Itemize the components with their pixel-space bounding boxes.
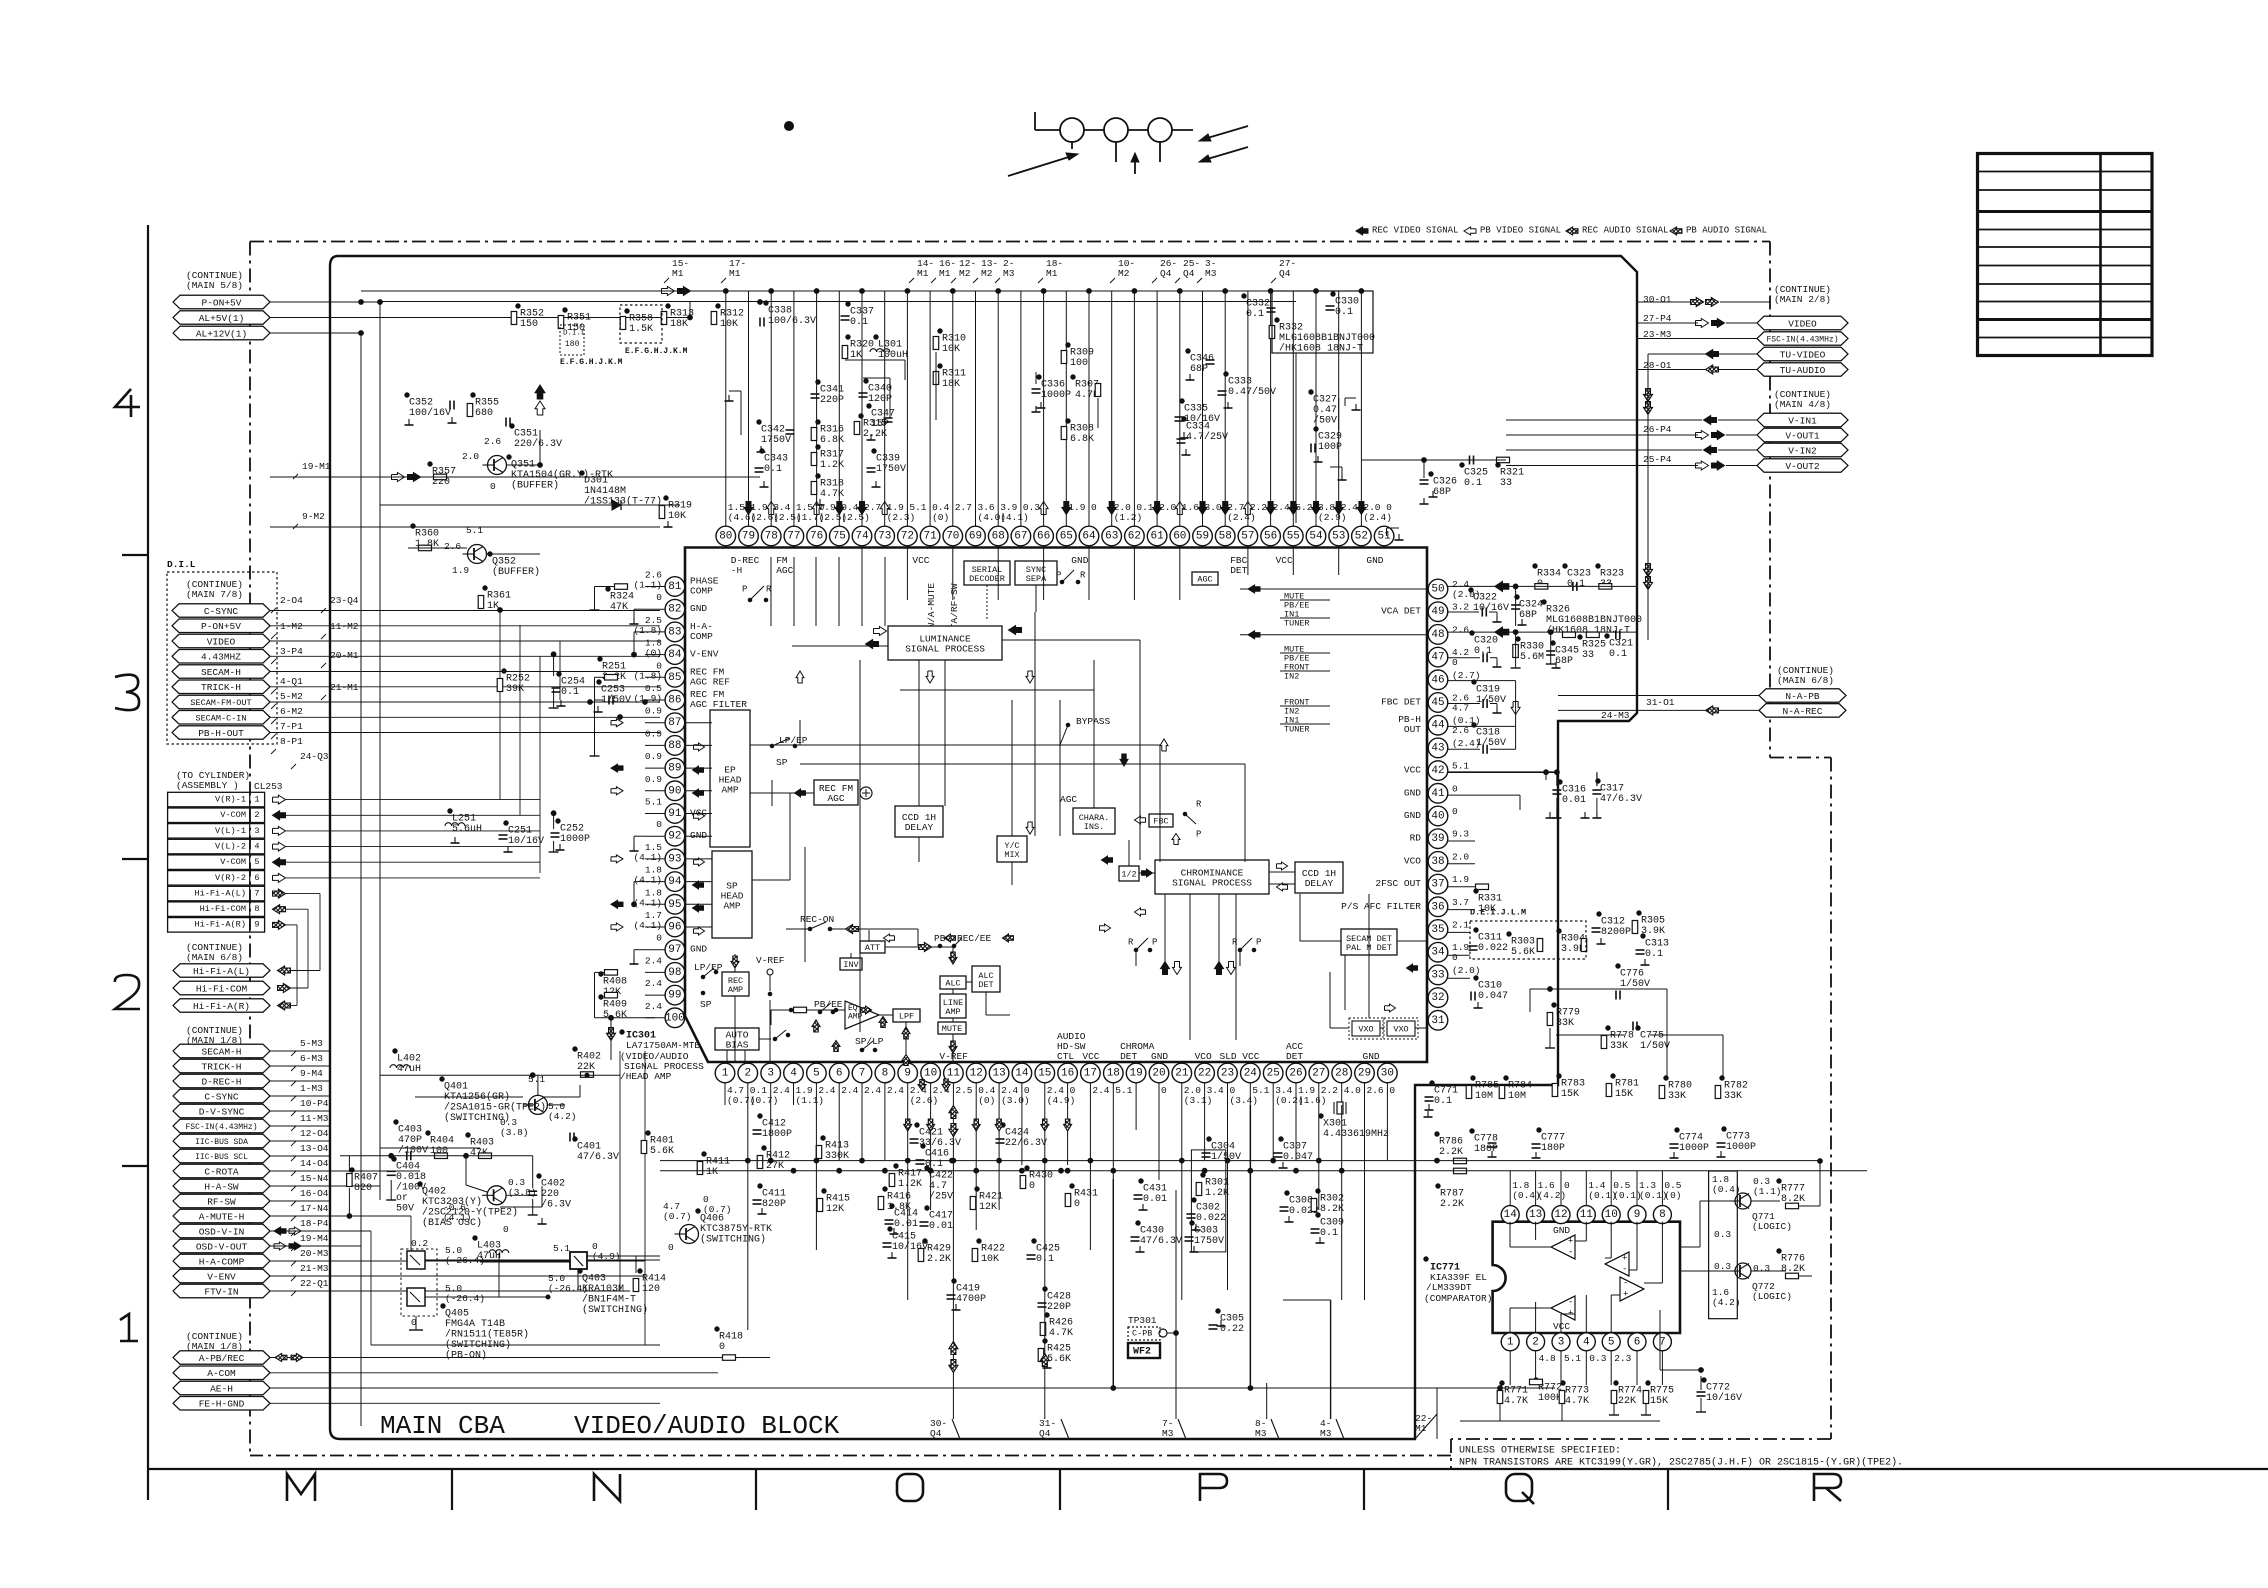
svg-text:67: 67	[1014, 531, 1027, 543]
svg-text:5.1: 5.1	[1452, 761, 1469, 772]
capacitor C317	[1596, 779, 1600, 783]
arrow 30-O1	[1691, 298, 1704, 307]
svg-text:36: 36	[1431, 901, 1444, 913]
IC301 pin 5	[807, 1063, 827, 1083]
svg-text:V(L)-2: V(L)-2	[215, 841, 246, 851]
svg-text:R3035.6K: R3035.6K	[1511, 936, 1535, 958]
wire gnd stub pin82	[634, 608, 645, 610]
svg-text:C777180P: C777180P	[1541, 1132, 1565, 1154]
svg-text:-: -	[1622, 1265, 1627, 1275]
wire pin49	[1448, 611, 1479, 613]
wire pin46	[1448, 680, 1516, 682]
svg-text:V-ENV: V-ENV	[690, 649, 719, 660]
wire P-ON+5V	[270, 625, 660, 627]
wire bus y1171 right	[1415, 1170, 1867, 1172]
wire pin 14 bottom	[1021, 1083, 1023, 1105]
resistor R330	[1516, 637, 1520, 641]
svg-text:11: 11	[947, 1068, 961, 1080]
resistor R305	[1637, 911, 1641, 915]
resistor R301	[1201, 1173, 1205, 1177]
wire V-ENV	[270, 1275, 645, 1277]
svg-text:87: 87	[668, 717, 681, 729]
svg-text:0: 0	[503, 1224, 509, 1235]
svg-text:2: 2	[744, 1068, 751, 1080]
svg-text:5.1: 5.1	[645, 797, 662, 808]
svg-text:R7768.2K: R7768.2K	[1781, 1253, 1805, 1275]
svg-text:35: 35	[1431, 924, 1444, 936]
resistor R317	[816, 445, 820, 449]
svg-text:V-COM: V-COM	[220, 810, 246, 820]
svg-text:2FSC OUT: 2FSC OUT	[1375, 878, 1421, 889]
connector FTV-IN	[173, 1284, 270, 1298]
svg-text:SLD: SLD	[1220, 1051, 1237, 1062]
svg-text:(CONTINUE)(MAIN 6/8): (CONTINUE)(MAIN 6/8)	[186, 942, 243, 963]
wire pin47	[1448, 657, 1480, 659]
svg-text:VCC: VCC	[912, 555, 929, 566]
connector VIDEO	[1757, 316, 1848, 330]
dash-dot boundary top edge	[250, 241, 1770, 243]
svg-text:82: 82	[668, 604, 681, 616]
arrow cylinder 9	[273, 920, 286, 929]
svg-text:0: 0	[1161, 1085, 1167, 1096]
resistor R415	[822, 1189, 826, 1193]
dash-dot boundary bottom edge left	[250, 1455, 1451, 1457]
IC301 pin 16	[1058, 1063, 1078, 1083]
IC771 pin 9	[1628, 1206, 1646, 1224]
wire vxo to pin31	[1415, 1027, 1427, 1029]
arrow VIDEO	[1696, 319, 1709, 328]
wire V-IN2	[1506, 449, 1702, 451]
block SECAM DET PAL M DET	[1341, 929, 1397, 955]
svg-text:A-MUTE-H: A-MUTE-H	[199, 1211, 245, 1222]
svg-text:C341220P: C341220P	[820, 384, 844, 406]
svg-text:R4015.6K: R4015.6K	[650, 1135, 674, 1157]
wire pin 98 left	[645, 971, 665, 973]
svg-text:0.9: 0.9	[645, 728, 662, 739]
svg-text:C428220P: C428220P	[1047, 1291, 1071, 1313]
wire rec fm agc	[750, 792, 814, 794]
svg-text:1: 1	[254, 795, 259, 805]
wire ep head amp out	[750, 744, 800, 746]
resistor R334	[1533, 564, 1537, 568]
resistor R323	[1596, 564, 1600, 568]
wire pin 57 top	[1247, 292, 1249, 527]
svg-text:1-M3: 1-M3	[300, 1083, 323, 1094]
IC301 pin 71	[920, 526, 940, 546]
grid column label P	[1200, 1474, 1227, 1501]
IC301 pin 44	[1428, 715, 1448, 735]
svg-text:R4264.7K: R4264.7K	[1049, 1317, 1073, 1339]
svg-text:4.43MHZ: 4.43MHZ	[201, 652, 241, 663]
wire pin 90 left	[645, 790, 665, 792]
arrow q351 up	[535, 385, 545, 399]
svg-text:3.2: 3.2	[1452, 602, 1469, 613]
tape path arrow up	[1134, 158, 1136, 174]
block ATT	[860, 941, 885, 953]
wire pin 99 left	[645, 994, 665, 996]
svg-text:R413330K: R413330K	[825, 1140, 849, 1162]
connector P-ON+5V	[172, 619, 270, 633]
block VXO right	[1387, 1021, 1415, 1036]
IC301 pin 48	[1428, 625, 1448, 645]
svg-text:30: 30	[1381, 1068, 1394, 1080]
connector OSD-V-IN	[173, 1224, 270, 1238]
connector V-IN1	[1757, 413, 1848, 427]
svg-text:R772100K: R772100K	[1538, 1382, 1562, 1404]
wire V-OUT2	[1506, 465, 1698, 467]
IC301 pin 75	[830, 526, 850, 546]
block Y/C MIX	[997, 836, 1027, 862]
IC301 pin 51	[1374, 526, 1394, 546]
grid row label 3	[115, 675, 139, 710]
svg-text:R3152.2K: R3152.2K	[863, 418, 887, 440]
IC301 pin 37	[1428, 874, 1448, 894]
wire IC inner pin50 row	[1240, 588, 1427, 590]
svg-text:1.9: 1.9	[1452, 874, 1469, 885]
resistor R416	[883, 1187, 887, 1191]
wire pin 52 top	[1360, 292, 1362, 527]
svg-text:D.I.L: D.I.L	[167, 559, 196, 570]
IC301 pin 45	[1428, 693, 1448, 713]
svg-text:SERIALDECODER: SERIALDECODER	[969, 565, 1005, 584]
connector AL+5V(1)	[173, 311, 270, 324]
resistor R782	[1720, 1076, 1724, 1080]
svg-text:R: R	[1080, 571, 1086, 581]
arrow cylinder 4	[273, 842, 286, 851]
capacitor C333	[1224, 372, 1228, 376]
svg-text:10: 10	[1605, 1209, 1618, 1221]
wire C342 gnd bracket	[740, 391, 742, 435]
svg-text:28: 28	[1335, 1068, 1348, 1080]
svg-text:AGC: AGC	[1060, 794, 1077, 805]
registration dot	[785, 122, 794, 131]
IC301 pin 52	[1352, 526, 1372, 546]
IC301 pin 2	[738, 1063, 758, 1083]
connector FSC-IN	[1757, 332, 1848, 345]
IC301 pin 50	[1428, 579, 1448, 599]
svg-text:77: 77	[787, 531, 800, 543]
svg-text:C3160.01: C3160.01	[1562, 784, 1586, 806]
svg-text:0.9: 0.9	[645, 774, 662, 785]
svg-text:N-A-PB: N-A-PB	[1785, 691, 1820, 702]
resistor R779	[1552, 1003, 1556, 1007]
block SP HEAD AMP	[712, 851, 752, 938]
resistor R421	[975, 1187, 979, 1191]
svg-text:+: +	[1568, 1237, 1573, 1247]
svg-text:PB VIDEO SIGNAL: PB VIDEO SIGNAL	[1480, 226, 1561, 236]
IC301 pin 32	[1428, 988, 1448, 1008]
svg-text:48: 48	[1431, 629, 1444, 641]
svg-text:53: 53	[1332, 531, 1345, 543]
svg-text:20-M1: 20-M1	[330, 650, 359, 661]
arrow OSD-V-OUT	[274, 1242, 286, 1250]
svg-text:BYPASS: BYPASS	[1076, 716, 1111, 727]
svg-text:H-A-COMP: H-A-COMP	[199, 1256, 245, 1267]
wire vert long 860	[859, 660, 861, 1032]
connector V-OUT2	[1757, 459, 1848, 472]
svg-text:2.3: 2.3	[1614, 1353, 1631, 1364]
svg-text:89: 89	[668, 763, 681, 775]
wire R324 gnd stub	[595, 586, 615, 588]
connector TRICK-H	[172, 680, 270, 694]
svg-text:C4310.01: C4310.01	[1143, 1183, 1167, 1205]
resistor R409	[599, 995, 603, 999]
connector H-A-SW	[173, 1179, 270, 1193]
wire q401 links	[547, 1104, 565, 1106]
svg-text:6-M3: 6-M3	[300, 1053, 323, 1064]
wire pin 7 bottom	[861, 1083, 863, 1105]
dash-dot boundary right edge lower	[1830, 758, 1832, 1440]
IC301 pin 87	[665, 713, 685, 733]
IC301 pin 72	[898, 526, 918, 546]
IC771 pin 3	[1552, 1333, 1570, 1351]
wire bus x540	[539, 656, 541, 873]
svg-text:0.4(0): 0.4(0)	[978, 1085, 995, 1106]
svg-text:27: 27	[1312, 1068, 1325, 1080]
capacitor C323	[1563, 564, 1567, 568]
resistor R783	[1557, 1074, 1561, 1078]
capacitor C337	[846, 302, 850, 306]
svg-text:37: 37	[1431, 879, 1444, 891]
svg-text:Hi-Fi-A(L): Hi-Fi-A(L)	[194, 888, 246, 898]
svg-text:REC VIDEO SIGNAL: REC VIDEO SIGNAL	[1372, 226, 1458, 236]
MAIN CBA board outline	[330, 256, 1637, 1439]
svg-text:H-A-SW: H-A-SW	[204, 1181, 239, 1192]
diode D301 symbol	[612, 500, 621, 510]
block REC AMP	[722, 972, 749, 996]
svg-text:1.6: 1.6	[1182, 502, 1199, 513]
svg-text:R3086.8K: R3086.8K	[1070, 423, 1094, 445]
svg-text:2.4: 2.4	[773, 1085, 790, 1096]
box 27-Q4 loop	[1272, 291, 1373, 353]
svg-text:6: 6	[836, 1068, 843, 1080]
svg-text:9: 9	[254, 920, 259, 930]
grid column label O	[897, 1474, 923, 1501]
IC771 internal wires	[1509, 1222, 1511, 1247]
arrow V-IN2	[1704, 446, 1717, 455]
inductor L251	[448, 809, 452, 813]
svg-text:R3028.2K: R3028.2K	[1320, 1193, 1344, 1215]
wire pin 65 top	[1065, 292, 1067, 527]
svg-text:V-OUT1: V-OUT1	[1785, 430, 1820, 441]
wire pin 85 left	[645, 676, 665, 678]
svg-text:V(L)-1: V(L)-1	[215, 826, 246, 836]
svg-text:49: 49	[1431, 606, 1444, 618]
wire sp head amp h	[752, 879, 790, 881]
svg-text:11-M3: 11-M3	[300, 1113, 329, 1124]
wire pin36	[1448, 909, 1475, 911]
resistor R778	[1606, 1026, 1610, 1030]
capacitor C777	[1537, 1128, 1541, 1132]
svg-text:2.6: 2.6	[1367, 1085, 1384, 1096]
svg-text:99: 99	[668, 990, 681, 1002]
svg-text:62: 62	[1128, 531, 1141, 543]
capacitor C415	[888, 1227, 892, 1231]
svg-text:0: 0	[1389, 1085, 1395, 1096]
svg-text:AE-H: AE-H	[210, 1383, 233, 1394]
wire TU-AUDIO	[1637, 369, 1705, 371]
block AUTO BIAS	[715, 1028, 759, 1050]
svg-text:ALC: ALC	[945, 979, 960, 989]
IC301 pin 53	[1329, 526, 1349, 546]
transistor Q406	[696, 1209, 700, 1213]
svg-text:4: 4	[1583, 1336, 1590, 1348]
wire vert 805	[804, 847, 806, 962]
wire pin 91 left	[645, 813, 665, 815]
capacitor C776	[1616, 964, 1620, 968]
svg-text:3.4: 3.4	[1207, 1085, 1224, 1096]
junction dots top bus	[723, 289, 728, 294]
capacitor C412	[758, 1114, 762, 1118]
wire pin 1 bottom	[724, 1083, 726, 1105]
ground symbols right	[1427, 1111, 1429, 1117]
capacitor C324	[1515, 595, 1519, 599]
connector C-SYNC	[172, 604, 270, 617]
wire 27q4 down	[1295, 353, 1297, 523]
svg-text:NPN TRANSISTORS ARE KTC3199(Y.: NPN TRANSISTORS ARE KTC3199(Y.GR), 2SC27…	[1459, 1456, 1903, 1468]
IC301 pin 41	[1428, 784, 1448, 804]
wire IIC-BUS SDA	[270, 1140, 331, 1142]
svg-text:16-O4: 16-O4	[300, 1188, 329, 1199]
IC301 pin 25	[1263, 1063, 1283, 1083]
wire pin48 right	[1448, 631, 1637, 633]
svg-text:9-M4: 9-M4	[300, 1068, 323, 1079]
wire pin 77 top	[793, 292, 795, 527]
svg-text:R7778.2K: R7778.2K	[1781, 1183, 1805, 1205]
svg-text:FBC: FBC	[1153, 817, 1168, 827]
wire A-MUTE-H	[270, 1215, 411, 1217]
block CHROMINANCE SIGNAL PROCESS	[1155, 860, 1269, 894]
svg-text:R3305.6M: R3305.6M	[1520, 641, 1544, 663]
block CCD 1H DELAY left	[895, 806, 943, 837]
arrow cylinder 6	[273, 873, 286, 882]
svg-text:FBCDET: FBCDET	[1230, 555, 1247, 576]
svg-text:FSC-IN(4.43MHz): FSC-IN(4.43MHz)	[1766, 335, 1838, 344]
grid row label 2	[115, 975, 140, 1009]
svg-text:8: 8	[882, 1068, 889, 1080]
wire C-ROTA	[270, 1170, 420, 1172]
arrow head amp arrows	[694, 743, 705, 751]
svg-text:91: 91	[668, 808, 682, 820]
frame tick zone 4/3	[122, 554, 148, 556]
svg-text:4-M3: 4-M3	[1320, 1418, 1332, 1439]
svg-text:(CONTINUE)(MAIN 2/8): (CONTINUE)(MAIN 2/8)	[1774, 284, 1831, 305]
capacitor C318	[1472, 723, 1476, 727]
capacitor C351	[510, 424, 514, 428]
wire pins to luminance	[770, 557, 772, 626]
resistor R426	[1045, 1313, 1049, 1317]
transistor Q406 symbol	[680, 1225, 699, 1244]
svg-text:5.1: 5.1	[1564, 1353, 1581, 1364]
dash-dot boundary left edge	[249, 242, 251, 1456]
wire cylinder 8	[286, 908, 308, 910]
svg-text:30-O1: 30-O1	[1643, 294, 1672, 305]
svg-text:45: 45	[1431, 697, 1444, 709]
connector AE-H	[173, 1381, 270, 1395]
svg-text:4: 4	[254, 841, 259, 851]
svg-text:8: 8	[1659, 1209, 1666, 1221]
svg-text:Hi-Fi-A(R): Hi-Fi-A(R)	[194, 920, 246, 930]
svg-text:ACCDET: ACCDET	[1286, 1041, 1303, 1062]
svg-text:10: 10	[924, 1068, 937, 1080]
wire C325 row	[1361, 459, 1506, 461]
svg-text:2.6: 2.6	[444, 541, 461, 552]
svg-text:5.1: 5.1	[1252, 1085, 1269, 1096]
capacitor C346	[1186, 349, 1190, 353]
svg-text:21-M3: 21-M3	[300, 1263, 329, 1274]
svg-text:(CONTINUE)(MAIN 4/8): (CONTINUE)(MAIN 4/8)	[1774, 389, 1831, 410]
svg-text:43: 43	[1431, 742, 1444, 754]
IC771 pin 1	[1501, 1333, 1519, 1351]
IC771 pin 11	[1577, 1206, 1595, 1224]
ground C326	[1423, 498, 1425, 504]
wire l403 col	[498, 1243, 500, 1262]
IC301 pin 46	[1428, 670, 1448, 690]
connector C-ROTA	[173, 1164, 270, 1178]
connector VIDEO	[172, 634, 270, 648]
svg-text:0: 0	[656, 819, 662, 830]
IC301 pin 24	[1241, 1063, 1261, 1083]
svg-text:0.9: 0.9	[645, 706, 662, 717]
svg-text:N-A-REC: N-A-REC	[1783, 706, 1823, 717]
svg-text:P-ON+5V: P-ON+5V	[201, 621, 241, 632]
svg-text:29: 29	[1358, 1068, 1371, 1080]
wire pin 17 bottom	[1089, 1083, 1091, 1105]
svg-text:C4140.01: C4140.01	[894, 1208, 918, 1230]
svg-text:V-IN1: V-IN1	[1788, 415, 1817, 426]
junction dots	[359, 300, 364, 305]
wire L402 row	[380, 1074, 620, 1076]
capacitor C774	[1675, 1128, 1679, 1132]
IC301 pin 66	[1034, 526, 1054, 546]
wire P-ON+5V	[270, 301, 380, 303]
svg-text:R: R	[1128, 938, 1134, 948]
IC771 pin 14	[1501, 1206, 1519, 1224]
wire R408 R409 left rail	[595, 971, 605, 973]
IC301 pin 89	[665, 758, 685, 778]
IC301 pin 59	[1193, 526, 1213, 546]
IC301 pin 79	[739, 526, 759, 546]
wire pin 59 top	[1202, 292, 1204, 527]
wire cylinder 7	[286, 893, 320, 895]
svg-text:66: 66	[1037, 531, 1050, 543]
svg-text:V-REF: V-REF	[939, 1051, 968, 1062]
wire cylinder 3	[286, 830, 540, 832]
svg-text:UNLESS OTHERWISE SPECIFIED:: UNLESS OTHERWISE SPECIFIED:	[1459, 1445, 1621, 1456]
wire 30-O1	[1637, 301, 1690, 303]
svg-text:R7734.7K: R7734.7K	[1565, 1385, 1589, 1407]
wire top h283	[361, 290, 1296, 292]
grid column label N	[594, 1474, 620, 1501]
svg-text:2.4: 2.4	[1092, 1085, 1109, 1096]
connector V-OUT1	[1757, 428, 1848, 442]
connector IIC-BUS SDA	[173, 1134, 270, 1148]
svg-text:38: 38	[1431, 856, 1444, 868]
dash-dot boundary note corner step	[1450, 1439, 1452, 1468]
comparator 2	[1605, 1252, 1629, 1276]
svg-text:Hi-Fi-COM: Hi-Fi-COM	[200, 904, 246, 914]
wire serial decoder drop	[986, 585, 988, 620]
grid row label 4	[115, 389, 140, 417]
connector H-A-COMP	[173, 1254, 270, 1268]
svg-text:0.5(0): 0.5(0)	[1664, 1180, 1681, 1201]
svg-text:R3171.2K: R3171.2K	[820, 449, 844, 471]
resistor R302	[1316, 1189, 1320, 1193]
svg-text:93: 93	[668, 853, 681, 865]
svg-text:VCC: VCC	[1242, 1051, 1259, 1062]
bracket gnd C329	[1330, 466, 1342, 468]
svg-text:52: 52	[1355, 531, 1368, 543]
